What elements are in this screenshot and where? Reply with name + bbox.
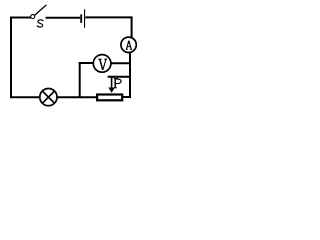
wire: from switch to battery	[46, 17, 81, 19]
label A inside ammeter	[126, 41, 132, 50]
switch S pivot circle	[31, 15, 35, 19]
rheostat slider arrowhead	[108, 88, 115, 93]
wire: right vertical down to ammeter	[131, 17, 133, 38]
wire: right vertical from ammeter down to rheostat level	[129, 52, 131, 98]
label S	[38, 20, 43, 27]
lamp cross diagonal 2	[42, 91, 54, 103]
wire: left vertical side	[10, 18, 12, 98]
rheostat P body rectangle	[97, 95, 122, 101]
battery positive plate (long thin)	[84, 9, 85, 28]
wire: lamp to rheostat left terminal	[57, 96, 97, 98]
wire: slider tap horizontal from right vertical	[108, 76, 131, 78]
wire: voltmeter branch vertical down to bottom wire	[79, 62, 81, 97]
switch S blade (open)	[35, 5, 47, 15]
voltmeter V circle	[93, 55, 111, 73]
lamp circle	[40, 89, 57, 106]
ammeter A circle	[121, 37, 136, 52]
label V inside voltmeter	[98, 59, 107, 70]
wire: from battery to top right corner	[85, 16, 132, 18]
battery negative plate (short thick)	[80, 14, 82, 23]
wire: rheostat right terminal to right vertical	[123, 96, 131, 98]
label P	[114, 78, 122, 87]
rheostat slider stem	[111, 77, 113, 89]
lamp cross diagonal 1	[42, 91, 54, 103]
wire: bottom left horizontal to lamp	[10, 96, 40, 98]
wire: top left horizontal to switch pivot	[10, 17, 31, 19]
wire: voltmeter right lead to right vertical	[111, 62, 132, 64]
wire: voltmeter left lead	[79, 62, 94, 64]
